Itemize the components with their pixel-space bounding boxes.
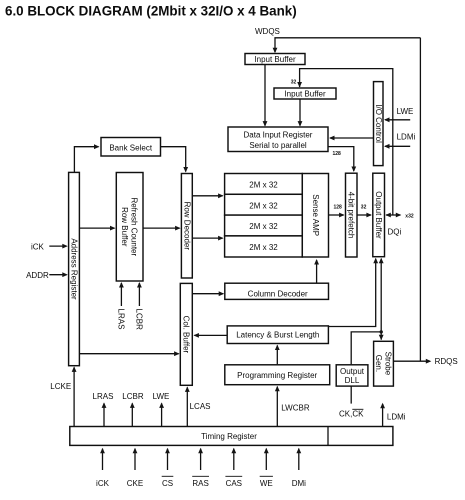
pin CSb [162, 448, 174, 488]
svg-text:LWE: LWE [397, 107, 414, 116]
svg-text:DQi: DQi [388, 228, 402, 237]
svg-text:4-bit prefetch: 4-bit prefetch [347, 192, 356, 239]
wire Latency to Output Buffer [328, 258, 378, 327]
label x32 [405, 214, 414, 220]
bank select [101, 138, 161, 157]
column decoder [225, 283, 329, 299]
wire iCK into Address Register [49, 244, 68, 249]
I/O control U-IOC [374, 82, 384, 166]
latency and burst length [227, 326, 328, 344]
svg-text:LCAS: LCAS [190, 402, 211, 411]
wire DQ bidirectional stub [385, 213, 401, 218]
wire Column Decoder to Sense AMP [314, 259, 319, 283]
svg-text:iCK: iCK [96, 479, 110, 488]
pin DMi [292, 448, 306, 488]
programming register [225, 365, 330, 385]
svg-text:Output Buffer: Output Buffer [374, 191, 383, 239]
pin CKE [127, 448, 143, 488]
svg-text:WE: WE [260, 479, 273, 488]
wire LCAS (Timing Register to Col Buffer) [185, 386, 190, 426]
svg-text:LCKE: LCKE [50, 382, 71, 391]
svg-text:Gen.: Gen. [374, 355, 383, 372]
label 128 (register out bus) [333, 151, 342, 157]
wire 4-bit prefetch to Output Buffer [357, 213, 372, 218]
memory bank 2M x 32 (3) [225, 215, 303, 236]
pin CASb [225, 448, 242, 488]
svg-text:Column Decoder: Column Decoder [248, 290, 308, 299]
node WDQS [255, 27, 280, 36]
wire WDQS horizontal to right rail [275, 38, 420, 52]
wire LWCBR (Timing Register to Programming Register) [275, 386, 280, 426]
svg-text:CAS: CAS [226, 479, 242, 488]
wire LCBR stub up [130, 402, 135, 426]
wire Data Input Register to 4-bit prefetch [328, 147, 356, 172]
wire Bank Select to Row Decoder [161, 147, 189, 173]
node iCK [31, 243, 45, 252]
svg-text:Row Buffer: Row Buffer [120, 207, 129, 247]
input buffer 2 [274, 88, 336, 99]
label 32 (input bus) [291, 80, 297, 86]
node LDMi (top) [397, 133, 416, 142]
label 128 (sense amp bus) [334, 205, 343, 211]
node LCKE [50, 382, 71, 391]
wire DQ input net (horizontal + down into Input Buffer 2) [297, 69, 393, 215]
row decoder [181, 174, 192, 279]
node LWE [397, 107, 414, 116]
node CK,CKb [339, 409, 364, 418]
node ADDR [26, 271, 49, 280]
node LWE (bottom) [153, 392, 170, 401]
svg-text:Output: Output [340, 367, 365, 376]
wire DLL clock rail (output buffer / strobe gen) [379, 258, 384, 341]
svg-text:6.0 BLOCK DIAGRAM (2Mbit x 32I: 6.0 BLOCK DIAGRAM (2Mbit x 32I/O x 4 Ban… [5, 4, 297, 19]
svg-text:Data Input Register: Data Input Register [244, 131, 313, 140]
wire LRAS stub into Refresh Counter [119, 282, 124, 306]
sense amp [302, 174, 328, 258]
svg-text:128: 128 [334, 205, 343, 211]
svg-text:LDMi: LDMi [387, 413, 406, 422]
node LRAS (bottom) [93, 392, 114, 401]
strobe gen [374, 341, 394, 386]
wire Row Decoder to array (lower) [192, 236, 223, 241]
wire CK input to Output DLL [350, 386, 352, 404]
svg-text:2M x 32: 2M x 32 [249, 201, 278, 210]
svg-text:Timing Register: Timing Register [201, 432, 257, 441]
node LCAS [190, 402, 211, 411]
svg-text:32: 32 [291, 80, 297, 86]
timing register [70, 427, 393, 446]
svg-text:LCBR: LCBR [122, 392, 144, 401]
wire Sense AMP to 4-bit prefetch [329, 213, 345, 218]
svg-text:32: 32 [361, 205, 367, 211]
pin iCK [96, 448, 110, 488]
svg-text:Col. Buffer: Col. Buffer [182, 316, 191, 354]
svg-text:LRAS: LRAS [93, 392, 114, 401]
data input register [228, 127, 328, 152]
svg-text:Row Decoder: Row Decoder [182, 202, 191, 251]
wire Output DLL feed [351, 330, 383, 364]
svg-text:ADDR: ADDR [26, 271, 49, 280]
arrow into Input Buffer 1 top [273, 48, 278, 54]
node LRAS (vertical) [117, 309, 126, 330]
node LDMi (bottom) [387, 413, 406, 422]
svg-text:CS: CS [162, 479, 173, 488]
svg-text:Strobe: Strobe [384, 352, 393, 376]
svg-text:DMi: DMi [292, 479, 306, 488]
svg-text:RDQS: RDQS [435, 357, 458, 366]
svg-text:LCBR: LCBR [135, 309, 144, 331]
svg-text:LDMi: LDMi [397, 133, 416, 142]
svg-text:x32: x32 [405, 214, 414, 220]
memory bank 2M x 32 (1) [225, 174, 303, 195]
svg-text:2M x 32: 2M x 32 [249, 181, 278, 190]
node LCBR (vertical) [135, 309, 144, 331]
pin RASb [192, 448, 209, 488]
memory bank 2M x 32 (2) [225, 194, 303, 215]
node DQi [388, 228, 402, 237]
wire I/O Control to Data Input Register [329, 136, 374, 141]
wire Address Register to Bank Select [74, 144, 99, 172]
svg-text:LRAS: LRAS [117, 309, 126, 330]
svg-text:Input Buffer: Input Buffer [254, 55, 296, 64]
wire Address Register to Refresh Counter [79, 226, 115, 231]
pin WEb [260, 448, 273, 488]
svg-text:RAS: RAS [192, 479, 208, 488]
label 32 (prefetch bus) [361, 205, 367, 211]
svg-text:Address Register: Address Register [69, 238, 78, 300]
svg-text:Input Buffer: Input Buffer [284, 90, 326, 99]
memory bank 2M x 32 (4) [225, 236, 303, 257]
output DLL [336, 365, 368, 386]
wire Refresh Counter to Row Decoder [143, 226, 181, 231]
svg-text:DLL: DLL [345, 376, 360, 385]
wire LCBR stub into Refresh Counter [137, 282, 142, 306]
wire LDMi stub up [380, 403, 385, 426]
wire ADDR into Address Register [49, 272, 68, 277]
input buffer 1 [245, 54, 305, 65]
svg-text:I/O Control: I/O Control [374, 104, 383, 143]
svg-text:Serial to parallel: Serial to parallel [249, 141, 307, 150]
wire long address line to Col Buffer [79, 351, 179, 356]
svg-text:WDQS: WDQS [255, 27, 280, 36]
address register [69, 172, 80, 365]
svg-text:2M x 32: 2M x 32 [249, 222, 278, 231]
svg-text:128: 128 [333, 151, 342, 157]
wire LRAS stub up [102, 402, 107, 426]
output buffer [373, 173, 385, 257]
wire Latency to Col Buffer [193, 333, 227, 338]
node LCBR (bottom) [122, 392, 144, 401]
wire Programming Register to Latency [275, 345, 280, 365]
wire Input Buffer 2 to Data Input Register [298, 99, 303, 127]
wire Input Buffer 1 to Data Input Register [263, 65, 268, 127]
svg-text:CK,CK: CK,CK [339, 410, 364, 419]
wire Col Buffer to Column Decoder [192, 291, 224, 296]
svg-text:CKE: CKE [127, 479, 143, 488]
wire right rail vertical (WDQS to RDQS line) [419, 38, 421, 361]
wire LDMi into I/O Control [384, 144, 410, 149]
svg-text:Programming Register: Programming Register [237, 371, 317, 380]
node RDQS [435, 357, 458, 366]
col buffer [180, 283, 192, 385]
wire LWE stub up [159, 402, 164, 426]
wire Row Decoder to array (upper) [192, 193, 223, 198]
svg-text:Latency & Burst Length: Latency & Burst Length [236, 331, 319, 340]
title [5, 4, 297, 19]
svg-text:Sense AMP: Sense AMP [311, 194, 320, 236]
wire Strobe Gen to RDQS [393, 359, 431, 364]
svg-text:LWCBR: LWCBR [281, 404, 310, 413]
refresh counter / row buffer [116, 173, 143, 282]
4-bit prefetch [346, 173, 358, 257]
wire LCKE (Timing Register to Address Register) [72, 366, 77, 426]
svg-text:LWE: LWE [153, 392, 170, 401]
svg-text:Bank Select: Bank Select [109, 144, 152, 153]
wire LWE into I/O Control [384, 117, 410, 122]
node LWCBR [281, 404, 310, 413]
svg-text:Refresh Counter: Refresh Counter [130, 197, 139, 256]
svg-text:2M x 32: 2M x 32 [249, 243, 278, 252]
svg-text:iCK: iCK [31, 243, 45, 252]
